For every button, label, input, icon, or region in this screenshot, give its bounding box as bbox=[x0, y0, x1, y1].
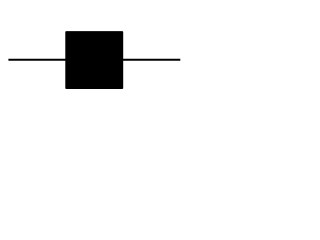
component U1: black-box two-terminal element (filled square body) bbox=[65, 31, 123, 89]
wire right lead bbox=[121, 59, 180, 61]
wire left lead bbox=[8, 59, 67, 61]
